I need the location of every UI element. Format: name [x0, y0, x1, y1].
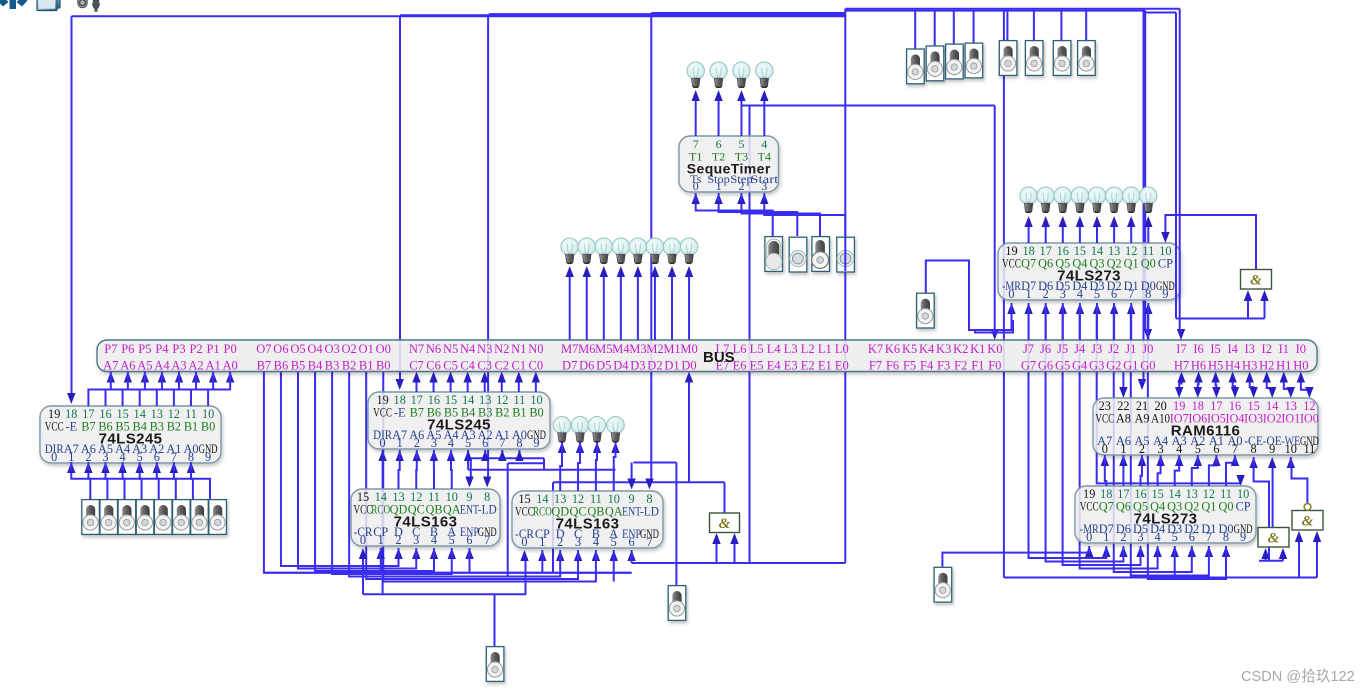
svg-text:N2: N2: [494, 342, 509, 356]
arrow into 74LS163A pin: [448, 548, 456, 559]
svg-text:O2: O2: [342, 342, 357, 356]
switch SD3: [1053, 41, 1071, 76]
wire wire T3 horizontal to right: [741, 105, 994, 107]
wire wire rail h2: [508, 462, 543, 464]
wire wire rail h3: [468, 469, 615, 471]
svg-text:P2: P2: [189, 342, 202, 356]
svg-text:A6: A6: [120, 359, 135, 373]
svg-text:B0: B0: [529, 406, 543, 420]
arrow into 74LS163B pin: [627, 550, 635, 561]
wire wire riser to BUS D0: [688, 381, 690, 482]
svg-text:N5: N5: [443, 342, 458, 356]
arrow into 74LS245B A3: [464, 450, 472, 461]
wire RAM6116 IO7 to BUS H7: [1179, 381, 1181, 390]
wire wire bottom data rail: [264, 572, 632, 574]
svg-text:9: 9: [533, 436, 539, 450]
wire wire 74LS245A B5 to BUS P5: [123, 381, 145, 406]
wire wire stub: [1253, 457, 1255, 467]
wire 74LS273A Q3 to lamp: [1096, 226, 1098, 243]
wire wire stub: [595, 550, 597, 560]
svg-text:G0: G0: [1140, 359, 1155, 373]
arrow into 74LS245 A -E: [67, 393, 75, 404]
wire net bus B3 column down to 74LS163 data pin: [332, 372, 452, 574]
svg-text:C4: C4: [460, 359, 475, 373]
svg-text:BUS: BUS: [703, 349, 735, 366]
svg-text:Q0: Q0: [1141, 257, 1156, 271]
arrow into 74LS273A D1: [1127, 303, 1135, 314]
wire net DIR245B vertical through 74LS163 A: [382, 455, 384, 594]
wire wire top rail 1: [72, 15, 846, 17]
arrow into RAM6116 -OE: [1268, 457, 1276, 468]
lamp L15: [1054, 187, 1071, 213]
74LS273 U7: [1075, 486, 1256, 544]
svg-text:F0: F0: [988, 359, 1001, 373]
wire BUS M6 to lamp: [586, 276, 588, 340]
wire wire switch SD2 lead: [1033, 9, 1035, 40]
svg-text:B2: B2: [167, 420, 181, 434]
wire wire AND-mid input 2: [734, 541, 736, 563]
svg-text:A2: A2: [188, 359, 203, 373]
svg-text:B5: B5: [291, 359, 306, 373]
wire net nE245B vertical down to 74LS245 B -E: [399, 15, 401, 382]
svg-text:5: 5: [611, 535, 617, 549]
lamp L11: [663, 238, 680, 264]
wire wire 74LS273B Q3 to RAM A3: [1175, 463, 1180, 486]
wire net -CE loop: [1254, 466, 1269, 561]
svg-text:A0: A0: [223, 359, 238, 373]
svg-text:G7: G7: [1021, 359, 1036, 373]
svg-text:74LS245: 74LS245: [427, 417, 491, 434]
svg-text:D5: D5: [596, 359, 611, 373]
arrow into RAM6116 A0: [1231, 455, 1239, 466]
wire net Ts from switch: [696, 200, 773, 236]
svg-text:K3: K3: [936, 342, 951, 356]
svg-text:3: 3: [431, 436, 437, 450]
arrow into 74LS163A pin: [412, 548, 420, 559]
wire wire AND-A input 1: [1247, 298, 1249, 319]
wire wire stub: [469, 548, 471, 558]
lamp L4: [756, 62, 773, 88]
svg-text:-LD: -LD: [640, 505, 659, 519]
svg-text:1: 1: [539, 535, 545, 549]
wire wire switch SA4 to 74LS245A A4: [123, 470, 142, 499]
wire wire stub: [1122, 546, 1124, 557]
svg-text:6: 6: [1213, 442, 1219, 456]
arrow into 74LS163B pin: [556, 550, 564, 561]
svg-text:I1: I1: [1279, 342, 1289, 356]
svg-text:0: 0: [693, 179, 699, 193]
svg-text:VCC: VCC: [515, 505, 534, 519]
svg-text:C3: C3: [477, 359, 492, 373]
arrow into SequeTimer Step: [737, 193, 745, 204]
wire wire riser to 245B: [518, 450, 520, 458]
svg-text:B7: B7: [257, 359, 272, 373]
svg-text:SequeTimer: SequeTimer: [687, 161, 771, 177]
svg-text:7: 7: [1206, 530, 1212, 544]
svg-text:&: &: [719, 516, 731, 532]
wire wire switch SC2 lead: [934, 11, 936, 46]
svg-text:L1: L1: [818, 342, 832, 356]
wire wire riser to 245B: [484, 450, 486, 458]
svg-text:N3: N3: [477, 342, 492, 356]
svg-text:M6: M6: [578, 342, 595, 356]
svg-text:-LD: -LD: [478, 503, 497, 517]
svg-text:H1: H1: [1276, 359, 1291, 373]
arrow into 74LS245A A1: [170, 462, 178, 473]
arrow into 74LS245A A0: [187, 462, 195, 473]
switch SB4 Start: [837, 237, 855, 272]
arrow into 74LS273A D0: [1144, 303, 1152, 314]
svg-text:3: 3: [1060, 287, 1066, 301]
wire 74LS245B B4 to BUS C4: [467, 382, 469, 393]
svg-text:VCC: VCC: [1002, 257, 1021, 271]
wire wire stub bus: [1045, 303, 1047, 340]
svg-text:B6: B6: [274, 359, 289, 373]
wire wire 74LS163A Q to 74LS245B A6: [415, 458, 418, 489]
wire wire top rail 6: [845, 10, 1145, 12]
svg-text:IO3: IO3: [1244, 412, 1263, 426]
svg-text:K7: K7: [868, 342, 883, 356]
wire wire stub: [1088, 546, 1090, 553]
svg-text:C1: C1: [512, 359, 527, 373]
svg-text:8: 8: [1251, 442, 1257, 456]
wire 74LS245B B0 to BUS C0: [535, 382, 537, 393]
wire wire stub: [1191, 546, 1193, 557]
wire wire switch SC3 lead: [953, 11, 955, 44]
svg-text:7: 7: [484, 533, 490, 547]
svg-text:L0: L0: [835, 342, 849, 356]
wire BUS M0 to lamp: [688, 276, 690, 340]
svg-text:D2: D2: [647, 359, 662, 373]
wire wire switch SA2 to 74LS245A A6: [88, 470, 107, 499]
svg-text:&: &: [1268, 531, 1280, 547]
wire wire A163B riser: [613, 560, 615, 582]
svg-text:6: 6: [1189, 530, 1195, 544]
wire wire stub bus: [1113, 303, 1115, 340]
arrow into AND-R2 input 1: [1295, 531, 1303, 542]
74LS163 U3: [351, 489, 500, 547]
svg-text:J2: J2: [1108, 342, 1119, 356]
svg-text:5: 5: [1094, 287, 1100, 301]
arrow into BUS A7: [107, 372, 115, 383]
wire net bus B7 column down to bottom data rail: [264, 372, 632, 573]
lamp L24: [607, 417, 624, 443]
wire net Step from switch: [741, 200, 820, 236]
wire wire to switch SH1: [494, 594, 496, 646]
arrow into 74LS273A -MR: [1007, 303, 1015, 314]
svg-text:O7: O7: [256, 342, 271, 356]
wire wire 74LS273B Q6 to RAM A6: [1122, 463, 1124, 486]
svg-text:J6: J6: [1040, 342, 1051, 356]
wire RAM6116 IO6 to BUS H6: [1197, 381, 1200, 390]
wire wire stub: [1234, 455, 1236, 464]
svg-text:IO2: IO2: [1263, 412, 1282, 426]
svg-text:M5: M5: [595, 342, 612, 356]
wire wire 74LS245A B1 to BUS P1: [191, 381, 213, 406]
arrow into SequeTimer Ts: [692, 193, 700, 204]
arrow into RAM6116 A1: [1212, 455, 1220, 466]
wire wire AND-R1 input 1: [1265, 554, 1267, 561]
svg-text:Q1: Q1: [1124, 257, 1139, 271]
wire wire 74LS163B Q0 to lamp: [614, 452, 616, 491]
arrow into BUS A2: [192, 372, 200, 383]
svg-text:0: 0: [1008, 287, 1014, 301]
svg-text:F3: F3: [937, 359, 950, 373]
svg-text:F7: F7: [869, 359, 882, 373]
arrow into 74LS245A A7: [67, 462, 75, 473]
arrow into 74LS245A A6: [84, 462, 92, 473]
arrow into 74LS245A A5: [101, 462, 109, 473]
bus BUS: [97, 340, 1317, 373]
wire wire top rail 5: [845, 8, 1179, 10]
wire wire stub: [1160, 455, 1162, 464]
svg-text:10: 10: [1285, 442, 1297, 456]
wire wire AND-R1 input 2: [1282, 554, 1284, 561]
wire wire AND-mid input 1: [716, 541, 718, 563]
wire net bus G7 column down to 74LS273 B data pin: [1029, 313, 1107, 558]
svg-text:E3: E3: [784, 359, 798, 373]
wire wire stub: [596, 442, 598, 453]
svg-text:K6: K6: [885, 342, 900, 356]
lamp L10: [646, 238, 663, 264]
svg-text:-E: -E: [65, 420, 77, 434]
wire wire stub: [613, 550, 615, 560]
wire wire 74LS163B Q3 to lamp: [560, 452, 562, 491]
arrow into BUS A5: [141, 372, 149, 383]
arrow into 74LS273B D6: [1119, 546, 1127, 557]
wire net nLD163A vertical down through 74LS245 B to 74LS163 A -LD: [487, 14, 489, 479]
svg-text:G6: G6: [1038, 359, 1053, 373]
arrow into AND-mid input 1: [712, 533, 720, 544]
arrow into 74LS245B A pin: [498, 450, 506, 461]
svg-text:O3: O3: [324, 342, 339, 356]
wire wire switch SA1 to 74LS245A A7: [71, 470, 90, 499]
lamp L23: [588, 417, 605, 443]
wire wire 74LS163A Q to 74LS245B A7: [399, 458, 400, 489]
wire T1 output to lamp: [695, 100, 697, 136]
wire wire AND-R2 input 1: [1298, 536, 1300, 578]
svg-text:VCC: VCC: [373, 406, 392, 420]
svg-text:1: 1: [1120, 442, 1126, 456]
arrow into 74LS163A ENT: [465, 477, 473, 488]
wire 74LS273A Q2 to lamp: [1113, 226, 1115, 243]
svg-text:2: 2: [738, 179, 744, 193]
arrow into AND-R1 input 1: [1261, 548, 1269, 559]
wire wire stub: [1178, 455, 1180, 464]
svg-text:3: 3: [761, 179, 767, 193]
svg-text:2: 2: [1120, 530, 1126, 544]
wire wire stub: [1157, 546, 1159, 557]
svg-text:O6: O6: [273, 342, 288, 356]
wire wire rail h1 drop: [543, 458, 545, 469]
wire wire stub: [173, 462, 175, 471]
svg-text:D1: D1: [664, 359, 679, 373]
switch SA7 (74LS245A inputs): [191, 500, 209, 535]
wire wire drop to 163B ENT: [631, 463, 633, 482]
wire net bus J3 column to 74LS273 B CP: [1097, 313, 1241, 483]
wire wire switch SC1 lead: [914, 11, 916, 49]
wire wire gate/clock rail: [632, 562, 846, 564]
arrow into RAM6116 A2: [1194, 455, 1202, 466]
wire wire top rail 3: [489, 13, 845, 15]
lamp L22: [571, 417, 588, 443]
wire wire riser to 245B A3: [467, 450, 469, 470]
svg-text:6: 6: [629, 535, 635, 549]
arrow into BUS D0: [685, 372, 693, 383]
arrow into 74LS273A D2: [1110, 303, 1118, 314]
svg-text:4: 4: [1176, 442, 1182, 456]
svg-text:A3: A3: [171, 359, 186, 373]
arrow into 74LS245A A3: [136, 462, 144, 473]
svg-text:B3: B3: [325, 359, 340, 373]
switch SC4: [965, 43, 983, 78]
arrow into lamp: [593, 442, 601, 453]
svg-text:B1: B1: [184, 420, 198, 434]
wire wire 74LS245A B4 to BUS P4: [140, 381, 162, 406]
wire wire stub: [451, 548, 453, 558]
wire wire stub: [1104, 455, 1106, 464]
svg-text:5: 5: [449, 533, 455, 547]
svg-text:A8: A8: [1116, 412, 1131, 426]
switch SA6 (74LS245A inputs): [173, 500, 191, 535]
arrow into 74LS245B A pin: [481, 450, 489, 461]
wire wire stub: [399, 450, 401, 459]
wire net bus B1 column down to 74LS163 data pin: [366, 372, 578, 579]
arrow into 74LS163B pin: [538, 550, 546, 561]
wire wire AND-R2 input 2: [1316, 536, 1318, 578]
wire wire top rail 4: [651, 12, 845, 14]
arrow into 74LS273A D4: [1076, 303, 1084, 314]
svg-text:D7: D7: [562, 359, 577, 373]
wire wire 74LS273B Q5 to RAM A5: [1141, 463, 1143, 486]
wire net nLD163B vertical down through BUS to 74LS163 B -LD: [650, 13, 652, 481]
svg-text:11: 11: [1303, 442, 1315, 456]
wire BUS M2 to lamp: [654, 276, 656, 340]
arrow into AND-mid input 2: [730, 533, 738, 544]
wire RAM6116 IO0 to BUS H0: [1301, 381, 1310, 390]
wire wire AND-mid output rail: [553, 481, 725, 483]
wire wire stub: [161, 372, 163, 383]
svg-text:&: &: [1250, 273, 1262, 289]
svg-text:J1: J1: [1125, 342, 1136, 356]
svg-text:A10: A10: [1151, 412, 1170, 426]
arrow into 74LS163B -LD: [645, 479, 653, 490]
svg-text:CSDN @拾玖122: CSDN @拾玖122: [1241, 668, 1355, 685]
wire wire drop to 163A ENT: [470, 458, 472, 479]
wire wire stub: [127, 372, 129, 383]
wire wire T3 branch down to BUS K0: [994, 106, 996, 332]
wire wire stub: [1225, 546, 1227, 557]
svg-text:8: 8: [1223, 530, 1229, 544]
wire wire stub: [450, 450, 452, 459]
wire wire stub: [433, 548, 435, 558]
arrow into SequeTimer Start: [760, 193, 768, 204]
wire wire stub: [398, 548, 400, 558]
wire wire ENT loop right drop: [675, 463, 677, 564]
switch SA4 (74LS245A inputs): [136, 500, 154, 535]
wire wire CP163A riser: [380, 558, 382, 573]
wire wire stub: [178, 372, 180, 383]
svg-text:D4: D4: [613, 359, 629, 373]
svg-text:P5: P5: [138, 342, 151, 356]
wire wire stub: [1140, 546, 1142, 557]
wire wire stub: [1208, 546, 1210, 557]
74LS245 U2: [368, 392, 550, 450]
svg-text:I4: I4: [1227, 342, 1238, 356]
wire wire stub: [433, 450, 435, 459]
svg-text:B1: B1: [512, 406, 526, 420]
lamp L13: [1020, 187, 1037, 213]
svg-text:J5: J5: [1057, 342, 1068, 356]
svg-text:6: 6: [466, 533, 472, 547]
lamp L14: [1037, 187, 1054, 213]
wire net Start from switch: [764, 200, 845, 236]
svg-text:C6: C6: [426, 359, 441, 373]
wire net I7 vertical down to BUS: [1179, 9, 1181, 331]
arrow into 74LS273A D6: [1042, 303, 1050, 314]
wire wire stub bus: [1147, 303, 1149, 340]
wire net -MR273B from switch SF1: [942, 553, 1089, 567]
wire wire BUS J6 to RAM A8: [1122, 372, 1124, 389]
wire net bus G2 column down to 74LS273 B data pin: [1131, 313, 1209, 576]
svg-text:B0: B0: [376, 359, 391, 373]
svg-text:O1: O1: [359, 342, 374, 356]
wire wire switch SA3 to 74LS245A A5: [106, 470, 125, 499]
svg-text:0: 0: [360, 533, 366, 547]
svg-text:H4: H4: [1225, 359, 1241, 373]
svg-text:VCC: VCC: [1080, 500, 1099, 514]
svg-text:G4: G4: [1072, 359, 1088, 373]
svg-text:7: 7: [646, 535, 652, 549]
arrow into RAM6116 A5: [1138, 455, 1146, 466]
arrow into 74LS245B A4: [447, 450, 455, 461]
arrow into lamp: [558, 442, 566, 453]
svg-text:O0: O0: [376, 342, 391, 356]
icon probe-tool: [78, 0, 87, 8]
svg-text:F4: F4: [920, 359, 934, 373]
svg-text:B4: B4: [308, 359, 323, 373]
wire wire top rail 7: [1145, 12, 1176, 14]
wire wire 74LS163A Q to 74LS245B A5: [433, 458, 435, 489]
svg-text:E0: E0: [835, 359, 849, 373]
lamp L7: [595, 238, 612, 264]
wire wire stub: [229, 372, 231, 383]
arrow into 74LS163B -CR: [520, 550, 528, 561]
svg-text:5: 5: [1195, 442, 1201, 456]
svg-text:74LS163: 74LS163: [394, 514, 458, 531]
wire wire stub: [1011, 303, 1013, 313]
and-gate U10 (middle): [710, 513, 740, 533]
svg-text:4: 4: [431, 533, 437, 547]
wire wire riser to 245B: [501, 450, 503, 458]
svg-text:C0: C0: [529, 359, 544, 373]
svg-text:8: 8: [516, 436, 522, 450]
svg-text:F6: F6: [886, 359, 899, 373]
svg-text:74LS273: 74LS273: [1057, 268, 1121, 285]
wire net T3 vertical down through SequeTimer and BUS: [749, 106, 751, 564]
arrow into 74LS273B -MR: [1085, 546, 1093, 557]
svg-text:M0: M0: [680, 342, 697, 356]
svg-text:3: 3: [413, 533, 419, 547]
svg-text:0: 0: [1102, 442, 1108, 456]
wire BUS M4 to lamp: [620, 276, 622, 340]
switch SC2: [926, 46, 944, 81]
svg-text:Q1: Q1: [1201, 500, 1216, 514]
wire wire stub: [559, 550, 561, 560]
arrow into 74LS245A A2: [153, 462, 161, 473]
svg-text:G2: G2: [1106, 359, 1121, 373]
svg-text:2: 2: [414, 436, 420, 450]
